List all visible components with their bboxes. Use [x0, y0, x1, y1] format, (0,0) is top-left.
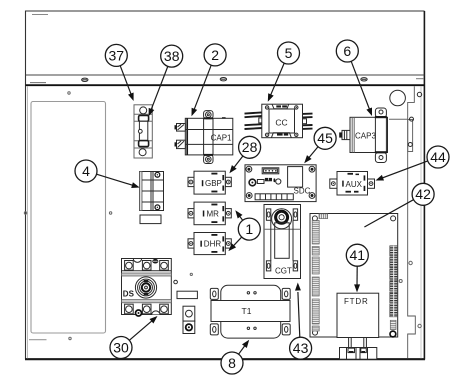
- svg-text:8: 8: [228, 355, 236, 371]
- T1 dots: [247, 292, 249, 294]
- CC bottom terminal: [271, 133, 291, 138]
- leader arrow 38: [151, 66, 168, 110]
- cabinet bottom edge: [25, 358, 425, 360]
- FTDR terminal feet: [340, 348, 377, 360]
- callout 42: [412, 183, 434, 205]
- svg-text:6: 6: [343, 43, 351, 59]
- CC right tab: [303, 119, 307, 124]
- disconnect switch DS (item 30): [122, 259, 172, 317]
- T1 mounting tabs: [210, 288, 218, 299]
- band screw oval left: [82, 78, 88, 81]
- CAP1 top tick: [222, 117, 226, 118]
- band screw oval right: [361, 78, 367, 81]
- leader arrow 30: [129, 320, 153, 340]
- SDC board: [245, 165, 316, 202]
- callout 37: [105, 44, 127, 66]
- CAP3 strap: [375, 108, 386, 117]
- right panel dot a: [409, 261, 412, 264]
- svg-text:CAP1: CAP1: [211, 134, 232, 143]
- svg-text:38: 38: [164, 48, 180, 64]
- SDC capacitor: [249, 179, 256, 186]
- svg-text:42: 42: [415, 186, 431, 202]
- SDC small rect: [257, 180, 264, 184]
- svg-text:37: 37: [109, 47, 125, 63]
- CC body: [262, 104, 303, 138]
- leader arrow 8: [239, 345, 246, 355]
- band screw oval center: [220, 78, 226, 81]
- door bottom dot: [69, 337, 71, 339]
- SDC diode: [274, 178, 276, 182]
- leader line 42: [364, 200, 413, 227]
- CAP3 terminal: [342, 130, 350, 139]
- callout 38: [161, 45, 183, 67]
- callout 28: [239, 136, 261, 158]
- CGT top-right bracket: [293, 209, 297, 220]
- leader arrow 45: [308, 147, 318, 159]
- leader arrow 41: [356, 266, 358, 286]
- small plate below strip: [140, 215, 161, 224]
- right rail bracket line: [389, 118, 408, 120]
- svg-text:28: 28: [242, 139, 258, 155]
- svg-text:44: 44: [430, 149, 446, 165]
- small plate (right of DS): [177, 291, 197, 298]
- hinge band top line: [26, 74, 425, 76]
- CAP1 strap: [204, 111, 213, 119]
- main panel inner left line: [27, 86, 29, 358]
- band right dash: [416, 78, 424, 80]
- top section dash: [32, 14, 48, 16]
- SDC bottom connector: [255, 194, 293, 200]
- fuse block below (two stacked): [183, 306, 195, 333]
- relay GBP: [188, 171, 231, 194]
- relay FTDR (item 41): [337, 293, 379, 337]
- leader arrow 1 to MR: [239, 215, 243, 220]
- relay AUX: [330, 172, 375, 196]
- PCB left connector strip: [312, 221, 319, 332]
- right panel dot c: [418, 324, 421, 327]
- svg-text:GBP: GBP: [205, 179, 222, 188]
- CGT bottom-left bracket: [266, 261, 270, 271]
- main panel inner right line: [420, 86, 422, 358]
- PCB top small connector: [319, 214, 328, 219]
- PCB right lower hatched block: [390, 320, 396, 329]
- DS top terminals: [122, 270, 172, 272]
- transformer T1 (item 8): [210, 285, 290, 338]
- leader arrow 4: [97, 174, 135, 186]
- callout 1: [238, 218, 260, 240]
- fuse holder FH (items 37/38): [134, 105, 152, 158]
- DS lower band: [122, 300, 172, 303]
- leader arrow 37: [120, 66, 131, 96]
- DS upper band: [122, 273, 172, 276]
- SDC jumper: [265, 178, 268, 181]
- callout 6: [336, 40, 358, 62]
- relay MR: [188, 202, 231, 225]
- svg-text:45: 45: [317, 130, 333, 146]
- band left dash: [30, 82, 46, 84]
- svg-text:1: 1: [245, 221, 253, 237]
- contactor CC: [245, 104, 313, 138]
- small dot near DHR: [190, 273, 192, 275]
- callout 5: [278, 42, 300, 64]
- DS bottom terminals: [125, 304, 134, 314]
- svg-text:30: 30: [113, 339, 129, 355]
- door screw dot top: [68, 92, 70, 94]
- svg-text:43: 43: [293, 340, 309, 356]
- CGT channel: [270, 220, 272, 260]
- callout 30: [110, 337, 132, 359]
- relay DHR: [188, 233, 231, 255]
- CC top terminal: [272, 104, 289, 109]
- CGT knob: [272, 209, 292, 229]
- callout 45: [314, 127, 336, 149]
- right rail screw bottom: [408, 143, 412, 147]
- CC corner screws: [265, 106, 268, 109]
- capacitor CAP1: [175, 111, 233, 164]
- leader arrow 5: [270, 63, 284, 96]
- control board PCB (item 42): [310, 214, 398, 360]
- right panel dot b: [399, 280, 402, 283]
- CC left tab: [259, 118, 262, 123]
- svg-text:MR: MR: [207, 209, 220, 218]
- capacitor CAP3: [339, 108, 387, 163]
- callout 4: [75, 160, 97, 182]
- CALLOUTS: [75, 40, 449, 374]
- svg-text:SDC: SDC: [294, 186, 311, 195]
- right panel small hole top: [417, 92, 421, 96]
- leader arrow 28: [233, 156, 243, 169]
- PCB right connector blocks: [390, 246, 398, 317]
- right panel step under band: [408, 86, 416, 358]
- gas control CGT: [264, 205, 301, 279]
- CAP1 left terminal lower: [175, 140, 186, 148]
- SDC relay block: [288, 167, 303, 188]
- door screw dot left mid: [24, 212, 26, 214]
- callout 43: [290, 337, 312, 359]
- CGT bottom-right bracket: [293, 261, 297, 271]
- CC wires left: [245, 112, 263, 129]
- svg-text:5: 5: [285, 45, 293, 61]
- CAP1 left terminal upper: [175, 124, 186, 132]
- leader arrow 44: [381, 161, 428, 179]
- T1 winding band: [211, 301, 290, 322]
- door window rectangle: [31, 102, 106, 334]
- door screw dot right mid: [109, 212, 111, 214]
- svg-text:DHR: DHR: [204, 240, 222, 249]
- leader arrow 1 to DHR: [233, 237, 242, 247]
- door bottom dash: [29, 339, 47, 341]
- CC wires right: [303, 114, 313, 129]
- DS rotary handle: [135, 277, 156, 298]
- CGT top-left bracket: [266, 209, 270, 220]
- DS side hole: [174, 280, 178, 284]
- svg-text:2: 2: [211, 47, 219, 63]
- svg-text:CC: CC: [275, 118, 287, 128]
- T1 core: [221, 285, 281, 338]
- SDC round part: [276, 179, 281, 184]
- svg-text:4: 4: [82, 163, 90, 179]
- right rail screw top: [410, 117, 414, 121]
- svg-text:AUX: AUX: [346, 180, 363, 189]
- svg-text:CAP3: CAP3: [355, 131, 376, 140]
- callout 2: [204, 44, 226, 66]
- svg-text:T1: T1: [242, 306, 252, 316]
- terminal strip (item 4): [140, 172, 164, 224]
- right panel big hole: [390, 90, 406, 106]
- callout 44: [427, 146, 449, 168]
- callout 41: [346, 244, 368, 266]
- right rail plate: [408, 120, 413, 152]
- hinge band bottom thick line: [26, 84, 425, 86]
- FTDR pins: [349, 338, 352, 348]
- SDC top connector: [262, 168, 279, 174]
- cabinet right edge: [423, 11, 425, 360]
- leader arrow 2: [194, 65, 212, 111]
- svg-text:CGT: CGT: [275, 266, 292, 275]
- svg-text:DS: DS: [123, 290, 135, 299]
- svg-text:41: 41: [350, 247, 366, 263]
- leader arrow 6: [351, 61, 370, 110]
- leader arrow 43: [298, 292, 300, 337]
- callout 8: [221, 352, 243, 374]
- svg-text:FTDR: FTDR: [344, 297, 369, 306]
